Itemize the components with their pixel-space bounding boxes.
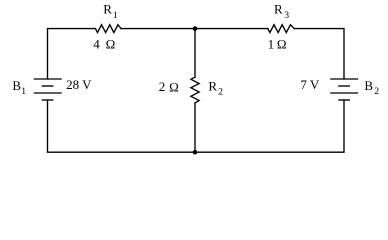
wire node to R2 top (194, 29, 196, 78)
wire top-left: left corner to R1 (48, 29, 96, 79)
wire node to R3 (195, 28, 268, 30)
svg-text:3: 3 (284, 10, 289, 21)
svg-text:Ω: Ω (169, 79, 179, 94)
svg-text:B: B (12, 78, 21, 93)
resistor R1 (95, 25, 121, 33)
svg-text:4: 4 (93, 36, 100, 51)
svg-text:2: 2 (374, 86, 379, 97)
svg-text:R: R (208, 79, 217, 94)
wire R2 bottom to bottom node (194, 103, 196, 152)
node top junction (193, 26, 198, 31)
svg-text:Ω: Ω (277, 36, 287, 51)
resistor R3 (268, 25, 294, 33)
svg-text:B: B (364, 78, 373, 93)
resistor R2 (191, 77, 199, 103)
battery B1 (34, 78, 61, 80)
wire bottom rail (48, 100, 345, 152)
svg-text:1: 1 (113, 10, 118, 21)
svg-text:Ω: Ω (106, 36, 116, 51)
node bottom junction (193, 150, 198, 155)
wire R1 to node (121, 28, 195, 30)
battery B2 (331, 78, 358, 80)
svg-text:7 V: 7 V (300, 77, 320, 92)
svg-text:2: 2 (159, 79, 166, 94)
svg-text:28 V: 28 V (66, 77, 92, 92)
svg-text:2: 2 (218, 86, 223, 97)
svg-text:R: R (103, 2, 112, 17)
svg-text:R: R (274, 2, 283, 17)
svg-text:1: 1 (268, 36, 275, 51)
wire R3 to top-right corner down to B2 (294, 29, 344, 79)
svg-text:1: 1 (21, 86, 26, 97)
